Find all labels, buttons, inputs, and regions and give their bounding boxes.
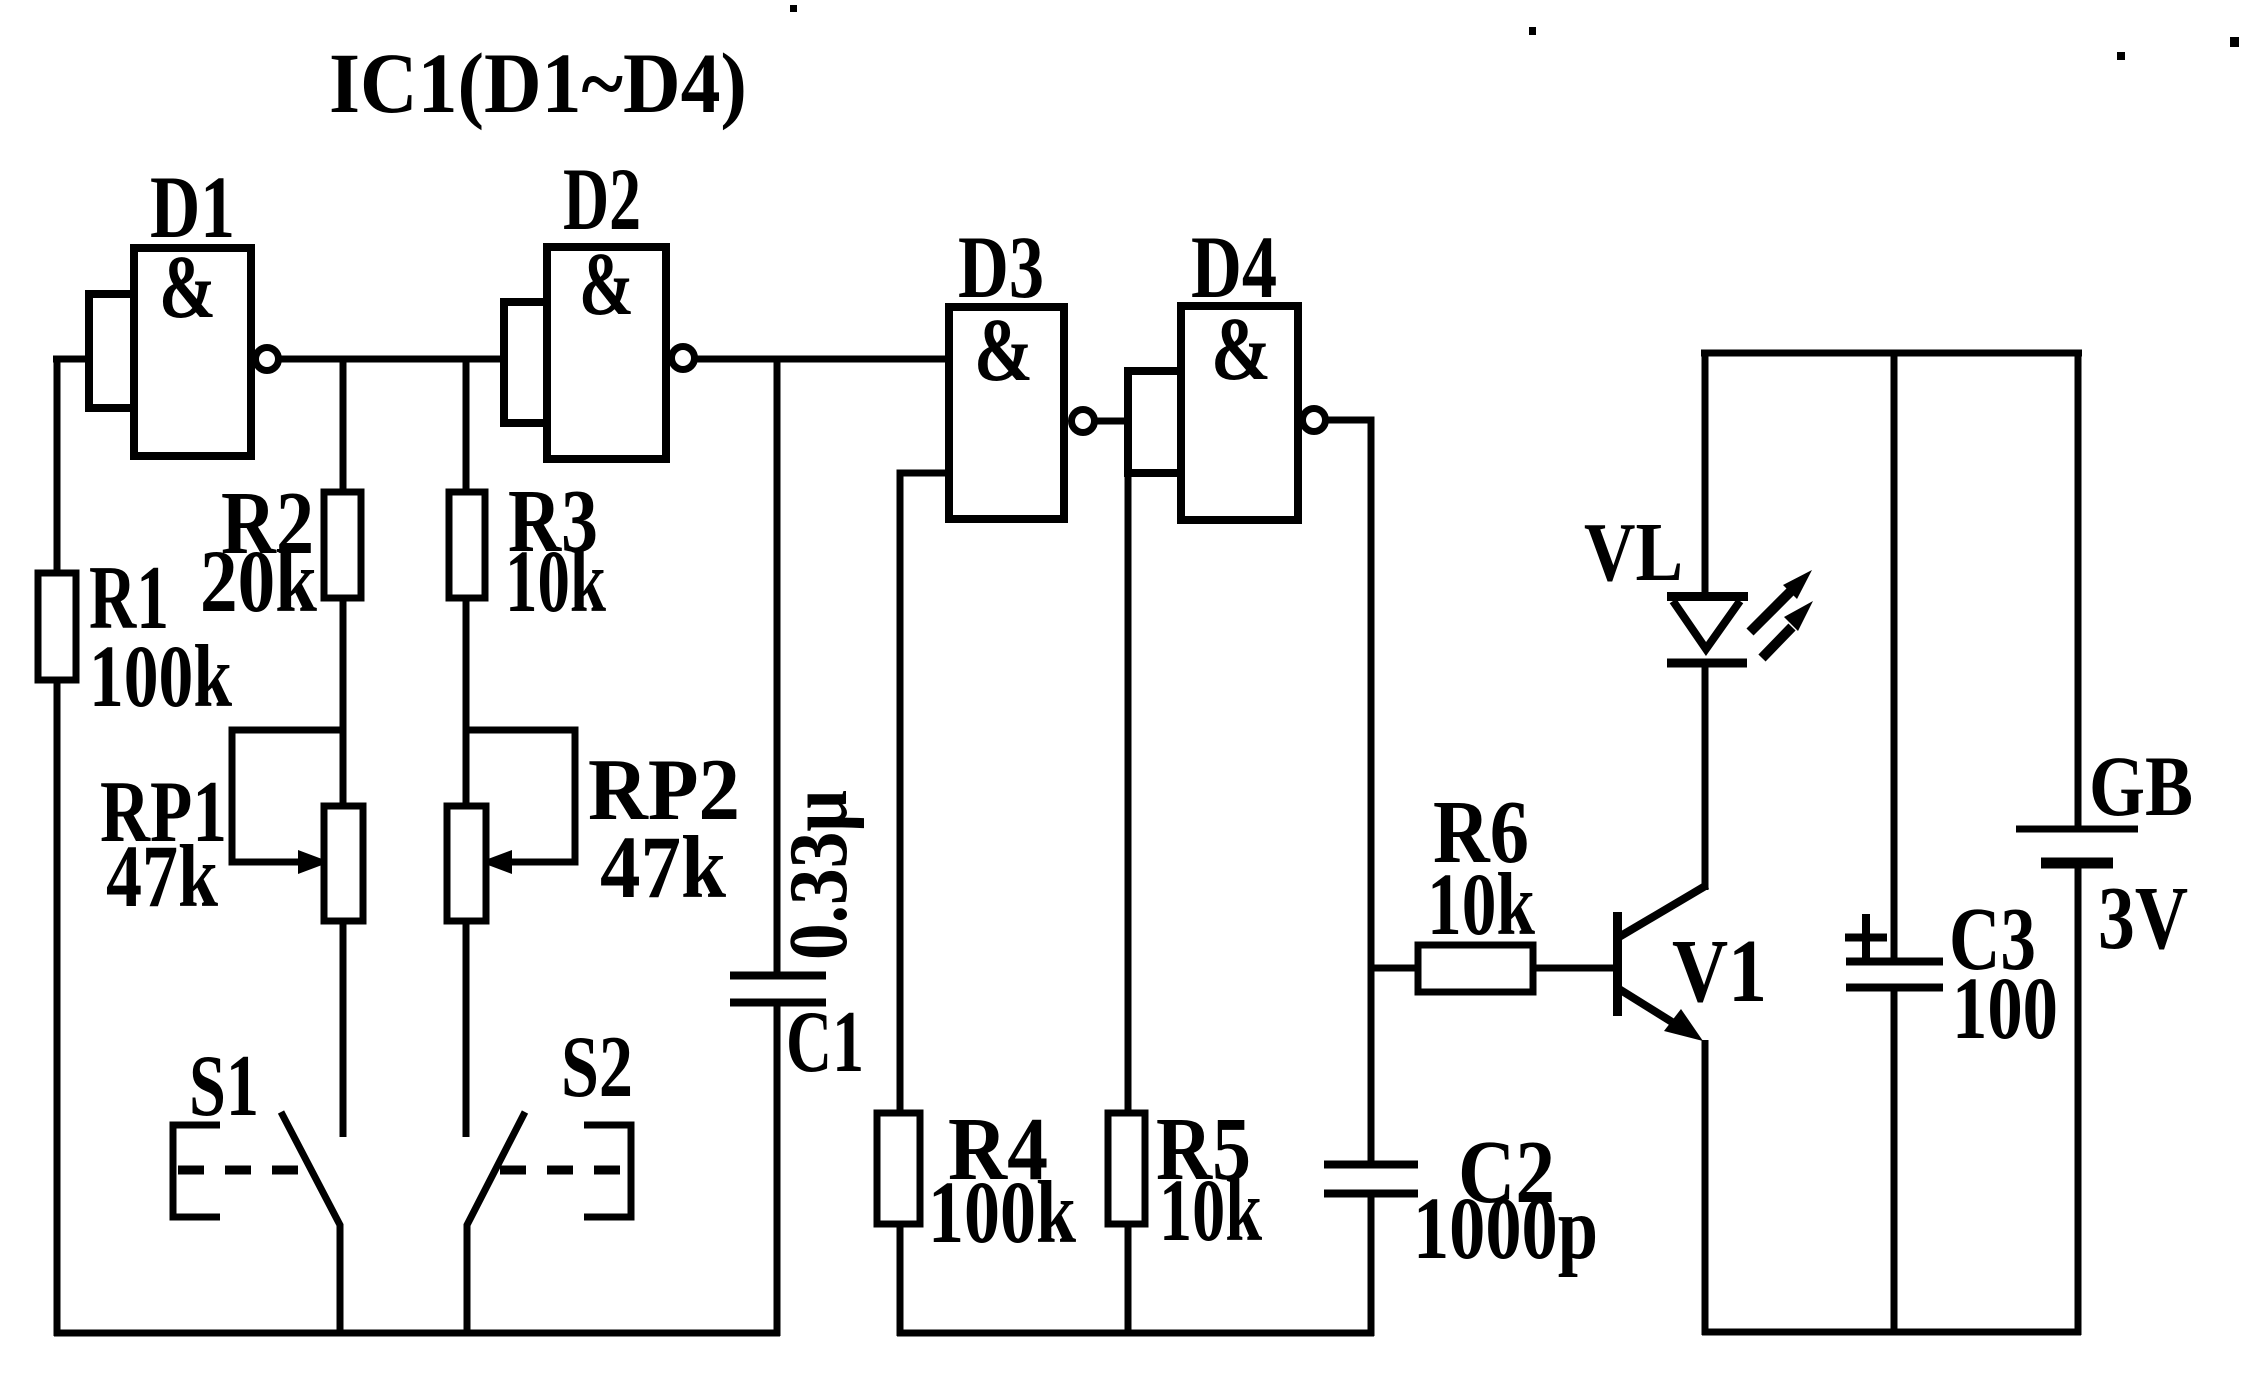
wire R5 branch from D4 input stub <box>1125 473 1132 1113</box>
wire left vertical rail from D1 input down to bottom bus <box>54 359 61 1336</box>
inversion bubble D4 output <box>1303 409 1326 432</box>
value 100 (C3) <box>1952 960 2058 1058</box>
value 0.33u (C1) rotated <box>772 790 865 960</box>
nand gate D4 input stub <box>1128 371 1181 473</box>
svg-text:C1: C1 <box>786 994 864 1091</box>
potentiometer RP1 wiper loop <box>232 730 343 874</box>
svg-text:VL: VL <box>1584 506 1683 599</box>
svg-text:10k: 10k <box>1427 856 1535 954</box>
inversion bubble D1 output <box>256 348 279 371</box>
capacitor C1 <box>730 976 826 1003</box>
inversion bubble D2 output <box>672 347 695 370</box>
svg-text:10k: 10k <box>505 533 606 631</box>
wire R3 branch top <box>463 359 470 492</box>
svg-text:S2: S2 <box>561 1019 633 1116</box>
potentiometer RP2 body <box>447 806 486 921</box>
wire D2 output to D3 input, node with C1 branch <box>696 356 953 363</box>
svg-text:D4: D4 <box>1191 219 1277 317</box>
value 3V (GB) <box>2098 869 2188 968</box>
label R1 <box>89 547 169 648</box>
inversion bubble D3 output <box>1072 410 1095 433</box>
label D4 <box>1191 219 1277 317</box>
wire RP2 to S2 fixed contact <box>463 921 470 1137</box>
wire V1 collector up to LED <box>1702 660 1709 890</box>
label D1 <box>150 159 235 257</box>
wire LED top to rail <box>1702 350 1709 600</box>
nand gate D1 body <box>134 248 251 456</box>
label & (D1) <box>159 238 216 337</box>
wire C1 bottom to bus <box>774 1006 781 1336</box>
wire D3 lower input from R4 <box>900 473 949 1113</box>
label VL <box>1584 506 1683 599</box>
wire R6 to V1 base <box>1533 965 1614 972</box>
bottom bus right loop <box>1702 1329 2081 1336</box>
resistor R2 <box>324 492 361 598</box>
resistor R4 <box>877 1113 920 1224</box>
capacitor C3 <box>1846 962 1943 988</box>
switch S2 button bracket <box>584 1125 631 1217</box>
resistor R5 <box>1108 1113 1145 1224</box>
label R6 <box>1433 783 1529 882</box>
label & (D3) <box>974 301 1033 400</box>
wire D4 output down to R6 and C2 <box>1327 420 1371 1161</box>
label RP2 <box>588 742 740 839</box>
wire R5 bottom to bus <box>1125 1224 1132 1336</box>
label & (D4) <box>1211 300 1271 399</box>
wire R2 branch top <box>340 359 347 492</box>
potentiometer RP2 wiper loop <box>466 730 575 874</box>
svg-text:GB: GB <box>2089 738 2193 834</box>
transistor V1 emitter diagonal with arrow <box>1619 989 1703 1041</box>
potentiometer RP1 body <box>324 806 363 921</box>
svg-text:0.33μ: 0.33μ <box>772 790 865 960</box>
label C3 <box>1949 890 2036 989</box>
wire D1 input <box>53 356 93 363</box>
battery GB <box>2016 829 2138 863</box>
switch S1 blade <box>281 1112 340 1336</box>
wire C3 bottom to bus <box>1891 991 1898 1335</box>
label C2 <box>1458 1123 1555 1222</box>
svg-text:V1: V1 <box>1672 922 1767 1021</box>
label RP1 <box>100 764 227 861</box>
wire R4 bottom to bus <box>897 1224 904 1336</box>
wire C3 branch top <box>1891 353 1898 958</box>
value 20k (R2) <box>200 533 317 631</box>
value 1000p (C2) <box>1413 1180 1598 1278</box>
value 100k (R4) <box>928 1164 1076 1262</box>
nand gate D4 body <box>1181 306 1298 520</box>
svg-text:47k: 47k <box>600 819 726 917</box>
switch S1 button bracket <box>173 1125 220 1217</box>
switch S2 mechanical dashed link <box>500 1166 626 1175</box>
label GB <box>2089 738 2193 834</box>
svg-text:3V: 3V <box>2098 869 2188 968</box>
switch S1 mechanical dashed link <box>178 1166 312 1175</box>
value 47k (RP2) <box>600 819 726 917</box>
led VL light arrows <box>1750 570 1813 658</box>
nand gate D2 input stub <box>504 302 547 423</box>
resistor R6 <box>1418 945 1533 992</box>
svg-text:1000p: 1000p <box>1413 1180 1598 1278</box>
wire GB bottom to bus <box>2075 868 2082 1335</box>
value 47k (RP1) <box>106 828 218 926</box>
value 10k (R5) <box>1159 1162 1262 1260</box>
value 10k (R3) <box>505 533 606 631</box>
transistor V1 collector diagonal <box>1619 885 1707 937</box>
svg-text:100k: 100k <box>89 628 232 726</box>
capacitor C2 <box>1324 1165 1418 1194</box>
capacitor C3 polarity plus <box>1845 914 1887 961</box>
wire C1 branch vertical <box>774 359 781 972</box>
bottom bus left loop <box>54 1330 780 1337</box>
scan speck top right <box>790 5 2239 60</box>
transistor V1 base bar <box>1613 912 1622 1016</box>
bottom bus middle loop <box>897 1330 1374 1337</box>
svg-text:20k: 20k <box>200 533 317 631</box>
label S1 <box>189 1038 259 1135</box>
svg-text:D2: D2 <box>563 151 641 249</box>
nand gate D1 input stub <box>89 294 134 408</box>
wire GB branch top <box>2075 353 2082 826</box>
label D2 <box>563 151 641 249</box>
wire D3 output to D4 input <box>1096 418 1132 425</box>
resistor R3 <box>449 492 485 598</box>
label R2 <box>221 474 314 573</box>
svg-text:&: & <box>579 235 634 334</box>
svg-text:100k: 100k <box>928 1164 1076 1262</box>
label V1 <box>1672 922 1767 1021</box>
wire R3 to RP2 <box>463 598 470 806</box>
top rail wire <box>1701 350 2082 357</box>
nand gate D2 body <box>547 247 666 459</box>
svg-text:47k: 47k <box>106 828 218 926</box>
wire V1 emitter to bottom bus <box>1702 1040 1709 1335</box>
svg-text:100: 100 <box>1952 960 2058 1058</box>
wire R2 to RP1 <box>340 598 347 806</box>
wire D1 output to D2 input (node with R2 R3) <box>280 356 506 363</box>
resistor R1 <box>38 573 76 680</box>
wire RP1 to S1 fixed contact <box>340 921 347 1137</box>
svg-text:D3: D3 <box>958 219 1044 317</box>
label R4 <box>948 1100 1048 1199</box>
label R3 <box>508 472 598 571</box>
label D3 <box>958 219 1044 317</box>
wire R6 left lead <box>1371 965 1418 972</box>
value 10k (R6) <box>1427 856 1535 954</box>
svg-text:S1: S1 <box>189 1038 259 1135</box>
label & (D2) <box>579 235 634 334</box>
label C1 <box>786 994 864 1091</box>
nand gate D3 body <box>949 307 1064 519</box>
wire C2 bottom to bus <box>1368 1197 1375 1336</box>
value 100k (R1) <box>89 628 232 726</box>
switch S2 blade <box>467 1112 525 1336</box>
label S2 <box>561 1019 633 1116</box>
svg-text:D1: D1 <box>150 159 235 257</box>
title IC1(D1~D4) <box>329 35 747 131</box>
led VL symbol <box>1667 597 1748 664</box>
label R5 <box>1156 1100 1251 1199</box>
svg-text:10k: 10k <box>1159 1162 1262 1260</box>
svg-text:IC1(D1~D4): IC1(D1~D4) <box>329 35 747 131</box>
